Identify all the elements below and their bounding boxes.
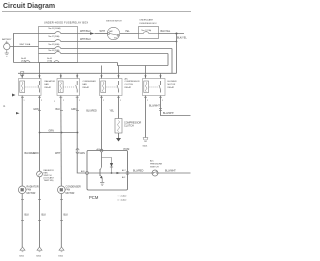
- svg-text:BLK/YEL: BLK/YEL: [177, 37, 187, 40]
- svg-text:A17: A17: [122, 169, 126, 172]
- PCM box: [87, 151, 128, 191]
- junction node: [176, 33, 178, 35]
- relay R2 condenser fan relay: [57, 79, 80, 96]
- emitter to internal ground: [101, 178, 103, 182]
- wire pressure switch right: [158, 172, 191, 174]
- continuation arrow top: [12, 94, 16, 97]
- svg-text:WHT 100A: WHT 100A: [20, 43, 31, 46]
- svg-text:BAT: BAT: [109, 30, 113, 33]
- svg-text:M: M: [60, 188, 63, 192]
- svg-text:GRN: GRN: [71, 108, 77, 111]
- arrow on output row: [117, 172, 121, 174]
- svg-text:MOTOR: MOTOR: [27, 192, 36, 195]
- A/C pressure switch: [152, 170, 158, 176]
- base row wire: [88, 172, 126, 174]
- connector ticks: [21, 97, 162, 110]
- relay pin drops with arrows: [21, 63, 162, 79]
- wire R2 coil to condenser fan motor: [60, 96, 63, 187]
- svg-text:2: 2: [63, 100, 64, 102]
- fuse in under-dash box: [139, 33, 144, 35]
- PCM right pin A17: [126, 172, 129, 175]
- wire R3 contact to compressor clutch: [118, 96, 120, 119]
- svg-text:YEL: YEL: [109, 110, 114, 113]
- inline connector on PCM fan wire: [76, 149, 79, 151]
- svg-text:PRESSURE: PRESSURE: [150, 164, 163, 166]
- svg-text:WHT: WHT: [100, 30, 106, 33]
- svg-text:1: 1: [54, 101, 55, 103]
- wire row3 drop: [171, 49, 173, 74]
- rail step: [118, 63, 169, 66]
- svg-text:1: 1: [24, 100, 25, 102]
- ground G202: [37, 247, 42, 250]
- battery ground: [6, 50, 8, 53]
- fuse row3: [55, 47, 61, 49]
- relay R3 compressor clutch relay: [100, 79, 123, 96]
- svg-text:COMPRESSOR: COMPRESSOR: [125, 81, 141, 83]
- ground G201: [20, 247, 25, 250]
- svg-text:Circuit Diagram: Circuit Diagram: [3, 3, 55, 10]
- svg-text:BLOWER: BLOWER: [168, 81, 178, 83]
- svg-text:A20: A20: [81, 170, 85, 173]
- svg-text:1: 1: [162, 100, 163, 102]
- svg-text:WHT/BLU: WHT/BLU: [80, 30, 91, 33]
- radiator fan motor: [18, 186, 26, 194]
- fuse row 1 wire: [39, 33, 56, 35]
- svg-text:No.47 (20A): No.47 (20A): [49, 35, 60, 38]
- svg-text:BLU/WHT: BLU/WHT: [165, 170, 176, 173]
- svg-text:CLUTCH: CLUTCH: [124, 125, 134, 128]
- battery: [4, 43, 10, 49]
- wire to pressure switch: [129, 172, 152, 174]
- wire R2 contact down to PCM: [77, 96, 85, 174]
- svg-text:No.44 (20A): No.44 (20A): [49, 49, 60, 52]
- svg-text:BLU/WHT: BLU/WHT: [149, 105, 160, 108]
- fuse No.47: [55, 40, 61, 42]
- svg-text:No.4 (7.5A): No.4 (7.5A): [142, 29, 152, 32]
- svg-text:FAN: FAN: [45, 83, 50, 86]
- svg-text:BLK: BLK: [25, 214, 30, 217]
- diode D1: [110, 163, 113, 167]
- wire R1 coil to radiator fan motor: [21, 96, 23, 187]
- svg-text:BATTERY: BATTERY: [2, 38, 12, 41]
- svg-text:□ : 4-door: □ : 4-door: [118, 199, 127, 202]
- svg-text:BLK/YEL: BLK/YEL: [161, 30, 171, 33]
- svg-text:TEMP SW): TEMP SW): [44, 180, 54, 182]
- title rule: [2, 11, 191, 13]
- svg-text:MOTOR: MOTOR: [168, 84, 176, 86]
- svg-text:WHT: WHT: [55, 152, 61, 155]
- fuse row 4 wire: [39, 53, 56, 55]
- svg-text:G401: G401: [143, 146, 149, 148]
- svg-text:○ : 2-door: ○ : 2-door: [118, 195, 127, 198]
- svg-text:WHT/BLU: WHT/BLU: [80, 38, 91, 41]
- wire row2 drop: [176, 41, 178, 43]
- svg-text:2: 2: [103, 100, 104, 102]
- PCM top pin A15: [100, 149, 103, 152]
- compressor clutch coil: [115, 119, 122, 134]
- relay R1 radiator fan relay: [19, 79, 42, 96]
- fuse row 3 wire: [39, 48, 56, 50]
- svg-text:CONDENSER: CONDENSER: [83, 81, 97, 83]
- direction arrow small: [16, 112, 20, 114]
- svg-text:GRN: GRN: [33, 108, 39, 111]
- svg-text:A/C: A/C: [150, 160, 154, 163]
- svg-text:RELAY: RELAY: [45, 86, 52, 89]
- svg-text:(7.5A): (7.5A): [47, 59, 53, 62]
- svg-text:PCM: PCM: [124, 147, 130, 151]
- svg-text:RELAY: RELAY: [168, 86, 175, 89]
- ignition switch: [107, 27, 119, 39]
- svg-text:1: 1: [120, 100, 121, 102]
- svg-text:CLUTCH: CLUTCH: [125, 84, 134, 86]
- ground compressor clutch: [116, 138, 121, 142]
- svg-text:A/C: A/C: [122, 176, 126, 179]
- connector box small: [21, 72, 24, 76]
- svg-text:1: 1: [79, 100, 80, 102]
- ground R4 coil: [143, 138, 148, 141]
- fuse on rail mid: [54, 61, 59, 63]
- fuse on rail left: [25, 61, 30, 63]
- wire to right edge: [159, 33, 185, 35]
- svg-text:No.42 (40A): No.42 (40A): [49, 43, 60, 46]
- svg-text:(20A): (20A): [21, 59, 26, 62]
- ground connector ticks: [21, 200, 63, 221]
- svg-text:BLU/RED: BLU/RED: [133, 170, 144, 173]
- svg-text:IGNITION SWITCH: IGNITION SWITCH: [106, 21, 122, 23]
- wire battery to fusebox: [10, 46, 39, 48]
- PCM left pin: [86, 172, 89, 175]
- svg-text:2: 2: [147, 100, 148, 102]
- fuse row 2 wire: [39, 41, 56, 43]
- radiator fan switch: [37, 171, 43, 177]
- svg-text:GRN: GRN: [33, 152, 39, 155]
- fan switch wire to ground: [39, 177, 41, 247]
- svg-text:2: 2: [41, 100, 42, 102]
- svg-text:YEL: YEL: [125, 30, 130, 33]
- svg-text:RELAY: RELAY: [83, 86, 90, 89]
- svg-text:IG1: IG1: [114, 38, 117, 40]
- svg-text:MOTOR: MOTOR: [66, 192, 75, 195]
- wire R1 contact down to fan switch: [39, 96, 41, 172]
- svg-text:FUSE/RELAY BOX: FUSE/RELAY BOX: [140, 22, 158, 25]
- svg-text:UNDER-DASH: UNDER-DASH: [140, 19, 154, 22]
- under-dash fuse/relay box: [139, 27, 159, 39]
- branch to diode: [102, 158, 112, 164]
- svg-text:GRN: GRN: [80, 152, 86, 155]
- wire row4 drop: [167, 54, 169, 66]
- arrow connector row1: [90, 32, 95, 34]
- wire R4 contact right: [161, 96, 191, 116]
- svg-text:BLK: BLK: [64, 214, 69, 217]
- upper bus rail: [14, 62, 118, 64]
- svg-text:GRN: GRN: [49, 129, 55, 132]
- under-hood fuse/relay box: [39, 27, 78, 63]
- svg-text:M: M: [21, 188, 24, 192]
- svg-text:4.: 4.: [3, 104, 6, 108]
- wire R4 coil to ground: [145, 96, 147, 138]
- svg-text:No.41 (100A): No.41 (100A): [49, 27, 61, 30]
- svg-text:RADIATOR: RADIATOR: [45, 80, 56, 83]
- svg-text:RELAY: RELAY: [125, 86, 132, 89]
- svg-text:G101: G101: [58, 256, 64, 258]
- link wire GRN: [40, 132, 78, 134]
- svg-text:G201: G201: [19, 256, 25, 258]
- fan switch label: [44, 169, 55, 182]
- fuse row4: [55, 52, 61, 54]
- svg-text:BLU/WHT: BLU/WHT: [163, 112, 174, 115]
- wire R3 coil to PCM pin: [101, 96, 103, 151]
- svg-text:BLK: BLK: [55, 108, 60, 111]
- ground G101: [59, 247, 64, 250]
- BLK/YEL drop: [176, 34, 178, 74]
- svg-text:FAN: FAN: [83, 83, 88, 86]
- svg-text:G202: G202: [36, 256, 42, 258]
- fuse No.41: [55, 32, 61, 34]
- transistor Q1: [101, 152, 103, 167]
- svg-text:BLU/RED: BLU/RED: [86, 110, 97, 113]
- svg-text:SWITCH: SWITCH: [150, 167, 159, 169]
- relay R4 blower motor relay: [143, 79, 166, 96]
- condenser fan motor: [58, 186, 66, 194]
- svg-text:PCM: PCM: [89, 195, 99, 200]
- wire clutch to ground: [118, 133, 120, 139]
- lower bus rail: [18, 72, 177, 74]
- pin numbers: [24, 100, 164, 103]
- svg-text:UNDER-HOOD FUSE/RELAY BOX: UNDER-HOOD FUSE/RELAY BOX: [44, 22, 88, 25]
- svg-text:BLK: BLK: [42, 214, 47, 217]
